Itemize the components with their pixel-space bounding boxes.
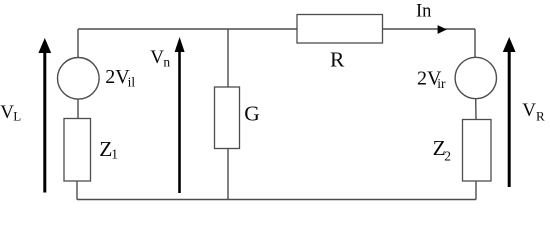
svg-text:L: L — [13, 108, 21, 123]
voltage arrow VR — [503, 37, 516, 187]
wire middle branch upper (top rail to G) — [227, 29, 229, 87]
source 2Vil circle — [58, 58, 100, 100]
source 2Vir circle — [455, 57, 496, 98]
wire left branch upper (top rail to source) — [77, 29, 79, 58]
wire left branch middle (source to Z1) — [77, 99, 79, 119]
svg-text:V: V — [0, 102, 14, 123]
wire right branch upper (top rail to source) — [474, 29, 476, 58]
wire right branch middle (source to Z2) — [475, 99, 477, 120]
svg-text:ir: ir — [437, 76, 446, 91]
svg-text:R: R — [330, 48, 345, 72]
wire left branch lower (Z1 to bottom rail) — [76, 181, 78, 200]
current arrowhead In — [438, 25, 447, 34]
wire top-right horizontal (R to right branch) — [383, 28, 476, 30]
svg-text:n: n — [163, 55, 170, 70]
svg-text:2: 2 — [444, 149, 451, 164]
svg-text:In: In — [416, 1, 431, 21]
svg-text:V: V — [522, 100, 536, 121]
resistor Z2 — [463, 120, 492, 182]
voltage arrow Vn — [175, 37, 185, 193]
resistor G — [215, 87, 240, 149]
svg-text:G: G — [244, 101, 260, 125]
voltage arrow VL — [38, 38, 51, 193]
wire right branch lower (Z2 to bottom rail) — [475, 181, 477, 200]
svg-text:1: 1 — [111, 147, 118, 162]
svg-text:il: il — [128, 75, 136, 90]
resistor Z1 — [64, 119, 91, 182]
svg-text:2V: 2V — [105, 66, 130, 88]
wire middle branch lower (G to bottom rail) — [227, 149, 229, 200]
wire bottom rail — [77, 199, 476, 201]
svg-text:V: V — [150, 47, 164, 68]
wire top-left horizontal (node Vn top rail left part) — [78, 28, 297, 30]
resistor R — [297, 15, 383, 44]
svg-text:R: R — [536, 108, 545, 123]
